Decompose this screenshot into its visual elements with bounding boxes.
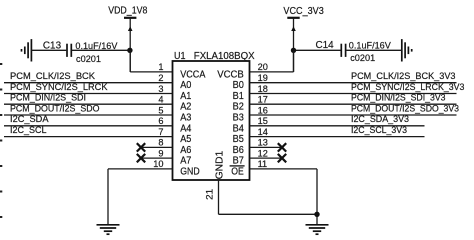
svg-text:12: 12 — [258, 148, 268, 158]
capacitor C13 0.1uF/16V c0201 — [43, 40, 118, 65]
pin number 13 — [258, 138, 268, 148]
svg-text:A0: A0 — [180, 80, 192, 91]
pin number 16 — [258, 105, 268, 115]
U1 pin name B6 (pin 13) — [233, 145, 245, 156]
node label PCM_CLK/I2S_BCK_3V3 — [351, 70, 456, 81]
svg-text:1: 1 — [158, 62, 163, 72]
pin number 3 — [158, 84, 163, 94]
U1 pin name VCCB (pin 20) — [217, 69, 244, 80]
svg-text:8: 8 — [158, 138, 163, 148]
svg-text:B5: B5 — [233, 134, 245, 145]
wire C13 right plate to VDD node — [72, 49, 130, 51]
svg-text:A3: A3 — [180, 113, 192, 124]
wire C14 right plate to ground — [346, 49, 401, 51]
svg-text:5: 5 — [158, 105, 163, 115]
node VCC_3V3 junction — [291, 48, 296, 53]
node label PCM_CLK/I2S_BCK — [10, 70, 96, 81]
pin number 5 — [158, 105, 163, 115]
U1 pin name VCCA (pin 1) — [180, 69, 205, 80]
wire VDD to pin 1 — [130, 50, 172, 72]
node ground junction — [314, 212, 319, 217]
U1 pin name GND (pin 10) — [180, 166, 200, 177]
svg-text:VCC_3V3: VCC_3V3 — [283, 6, 324, 17]
pin number 15 — [258, 116, 268, 126]
node label I2C_SDA — [10, 113, 49, 124]
wire net I2C_SCL to pin 7 — [4, 136, 173, 138]
svg-text:15: 15 — [258, 116, 268, 126]
ground (bottom left) — [97, 225, 120, 234]
svg-text:7: 7 — [158, 127, 163, 137]
U1 pin name B5 (pin 14) — [233, 134, 245, 145]
node label I2C_SDA_3V3 — [351, 113, 409, 124]
node label I2C_SCL — [10, 124, 47, 135]
U1 pin name OE (pin 11) — [230, 166, 245, 178]
U1 pin name B2 (pin 17) — [233, 102, 245, 113]
capacitor C14 0.1uF/16V c0201 — [316, 40, 392, 64]
pin number 4 — [158, 95, 163, 105]
svg-text:VCCA: VCCA — [180, 69, 205, 80]
wire VCC to pin 20 — [250, 50, 294, 72]
svg-text:PCM_DIN/I2S_SDI_3V3: PCM_DIN/I2S_SDI_3V3 — [351, 92, 446, 103]
pin number 2 — [158, 73, 163, 83]
wire C13 left plate to ground — [31, 49, 66, 51]
pin number 19 — [258, 73, 268, 83]
ground (sideways, right of C14) — [402, 39, 412, 61]
wire net PCM_CLK/I2S_BCK to pin 2 — [4, 82, 173, 84]
svg-text:16: 16 — [258, 105, 268, 115]
svg-text:PCM_DIN/I2S_SDI: PCM_DIN/I2S_SDI — [10, 92, 86, 103]
U1 pin name GND1 (pin 21, rotated) — [214, 150, 225, 179]
no-connect X pin 8 — [137, 143, 145, 151]
svg-text:PCM_DOUT/I2S_SDO: PCM_DOUT/I2S_SDO — [10, 102, 100, 113]
wire pin 8 no-connect stub — [141, 146, 173, 148]
svg-text:B3: B3 — [233, 113, 245, 124]
U1 pin name A1 (pin 3) — [180, 91, 192, 102]
pin number 12 — [258, 148, 268, 158]
node label PCM_DOUT/I2S_SDO_3V3 — [351, 102, 459, 113]
wire pin 21 GND1 to ground net — [219, 180, 318, 214]
pin number 6 — [158, 116, 163, 126]
node label PCM_DIN/I2S_SDI_3V3 — [351, 92, 446, 103]
node label I2C_SCL_3V3 — [351, 124, 407, 135]
pin number 1 — [158, 62, 163, 72]
U1 pin name B3 (pin 16) — [233, 113, 245, 124]
pin number 8 — [158, 138, 163, 148]
U1 pin name B7 (pin 12) — [233, 156, 245, 167]
U1 pin name B1 (pin 18) — [233, 91, 245, 102]
ground (bottom right) — [306, 225, 329, 234]
power symbol VCC_3V3 — [283, 6, 324, 72]
svg-text:PCM_SYNC/I2S_LRCK: PCM_SYNC/I2S_LRCK — [10, 81, 108, 92]
svg-text:C14: C14 — [316, 40, 335, 51]
pin number 17 — [258, 95, 268, 105]
svg-text:9: 9 — [158, 148, 163, 158]
wire pin 11 OE to ground net — [250, 169, 318, 225]
svg-text:19: 19 — [258, 73, 268, 83]
U1 pin name A6 (pin 8) — [180, 145, 192, 156]
no-connect X pin 9 — [137, 154, 145, 162]
svg-text:VDD_1V8: VDD_1V8 — [108, 5, 148, 16]
svg-text:FXLA108BQX: FXLA108BQX — [194, 51, 255, 62]
wire net PCM_SYNC/I2S_LRCK_3V3 from pin 18 — [250, 93, 457, 95]
svg-text:4: 4 — [158, 95, 163, 105]
svg-text:A7: A7 — [180, 156, 192, 167]
svg-text:20: 20 — [258, 62, 268, 72]
pin number 11 — [258, 159, 268, 169]
pin number 7 — [158, 127, 163, 137]
U1 pin name A2 (pin 4) — [180, 102, 192, 113]
node VDD_1V8 junction — [127, 48, 132, 53]
wire pin 10 GND to ground — [108, 169, 173, 225]
power symbol VDD_1V8 — [108, 5, 148, 72]
svg-text:GND: GND — [180, 166, 200, 177]
wire pin 9 no-connect stub — [141, 157, 173, 159]
svg-text:B7: B7 — [233, 156, 245, 167]
wire C14 left plate to VCC node — [294, 49, 341, 51]
sheet edge tick marks — [0, 63, 2, 218]
U1 pin name B0 (pin 19) — [233, 80, 245, 91]
svg-text:c0201: c0201 — [350, 53, 375, 64]
wire net PCM_SYNC/I2S_LRCK to pin 3 — [4, 93, 173, 95]
svg-text:18: 18 — [258, 84, 268, 94]
svg-text:A1: A1 — [180, 91, 192, 102]
pin number 21 (rotated) — [205, 189, 215, 200]
svg-text:B0: B0 — [233, 80, 245, 91]
svg-text:PCM_CLK/I2S_BCK: PCM_CLK/I2S_BCK — [10, 70, 96, 81]
svg-text:I2C_SCL_3V3: I2C_SCL_3V3 — [351, 124, 407, 135]
svg-text:17: 17 — [258, 95, 268, 105]
svg-text:6: 6 — [158, 116, 163, 126]
svg-text:A6: A6 — [180, 145, 192, 156]
no-connect X pin 13 — [278, 143, 286, 151]
U1 pin name A5 (pin 7) — [180, 134, 192, 145]
wire net PCM_DOUT/I2S_SDO to pin 5 — [4, 114, 173, 116]
U1 pin name A4 (pin 6) — [180, 123, 192, 134]
wire net I2C_SCL_3V3 from pin 14 — [250, 136, 425, 138]
node label PCM_SYNC/I2S_LRCK_3V3 — [351, 81, 464, 92]
wire net PCM_CLK/I2S_BCK_3V3 from pin 19 — [250, 82, 457, 84]
node label PCM_DOUT/I2S_SDO — [10, 102, 100, 113]
U1 pin name B4 (pin 15) — [233, 123, 245, 134]
wire pin 13 no-connect stub — [250, 146, 282, 148]
svg-text:B2: B2 — [233, 102, 245, 113]
svg-text:A4: A4 — [180, 123, 192, 134]
pin number 20 — [258, 62, 268, 72]
node label PCM_SYNC/I2S_LRCK — [10, 81, 108, 92]
svg-text:PCM_CLK/I2S_BCK_3V3: PCM_CLK/I2S_BCK_3V3 — [351, 70, 456, 81]
svg-text:10: 10 — [153, 159, 163, 169]
pin number 14 — [258, 127, 268, 137]
svg-text:B1: B1 — [233, 91, 245, 102]
svg-text:B4: B4 — [233, 123, 245, 134]
IC U1 FXLA108BQX body — [173, 51, 255, 180]
svg-text:3: 3 — [158, 84, 163, 94]
svg-text:2: 2 — [158, 73, 163, 83]
svg-text:U1: U1 — [174, 51, 186, 62]
svg-text:I2C_SCL: I2C_SCL — [10, 124, 47, 135]
svg-text:14: 14 — [258, 127, 268, 137]
ground (sideways, left of C13) — [22, 39, 32, 61]
U1 pin name A3 (pin 5) — [180, 113, 192, 124]
wire net PCM_DOUT/I2S_SDO_3V3 from pin 16 — [250, 114, 457, 116]
U1 pin name A0 (pin 2) — [180, 80, 192, 91]
pin number 18 — [258, 84, 268, 94]
svg-text:I2C_SDA: I2C_SDA — [10, 113, 49, 124]
pin number 9 — [158, 148, 163, 158]
svg-text:A5: A5 — [180, 134, 192, 145]
wire net PCM_DIN/I2S_SDI to pin 4 — [4, 103, 173, 105]
svg-text:GND1: GND1 — [214, 150, 225, 179]
svg-text:13: 13 — [258, 138, 268, 148]
svg-text:PCM_DOUT/I2S_SDO_3V3: PCM_DOUT/I2S_SDO_3V3 — [351, 102, 459, 113]
pin number 10 — [153, 159, 163, 169]
svg-text:11: 11 — [258, 159, 268, 169]
svg-text:A2: A2 — [180, 102, 192, 113]
svg-text:VCCB: VCCB — [217, 69, 244, 80]
wire net I2C_SDA to pin 6 — [4, 125, 173, 127]
U1 pin name A7 (pin 9) — [180, 156, 192, 167]
svg-text:PCM_SYNC/I2S_LRCK_3V3: PCM_SYNC/I2S_LRCK_3V3 — [351, 81, 464, 92]
svg-text:c0201: c0201 — [76, 54, 101, 65]
svg-text:I2C_SDA_3V3: I2C_SDA_3V3 — [351, 113, 409, 124]
no-connect X pin 12 — [278, 154, 286, 162]
wire net I2C_SDA_3V3 from pin 15 — [250, 125, 425, 127]
wire net PCM_DIN/I2S_SDI_3V3 from pin 17 — [250, 103, 457, 105]
wire pin 12 no-connect stub — [250, 157, 282, 159]
svg-text:OE: OE — [231, 166, 244, 177]
svg-text:21: 21 — [205, 189, 215, 200]
svg-text:B6: B6 — [233, 145, 245, 156]
node label PCM_DIN/I2S_SDI — [10, 92, 86, 103]
